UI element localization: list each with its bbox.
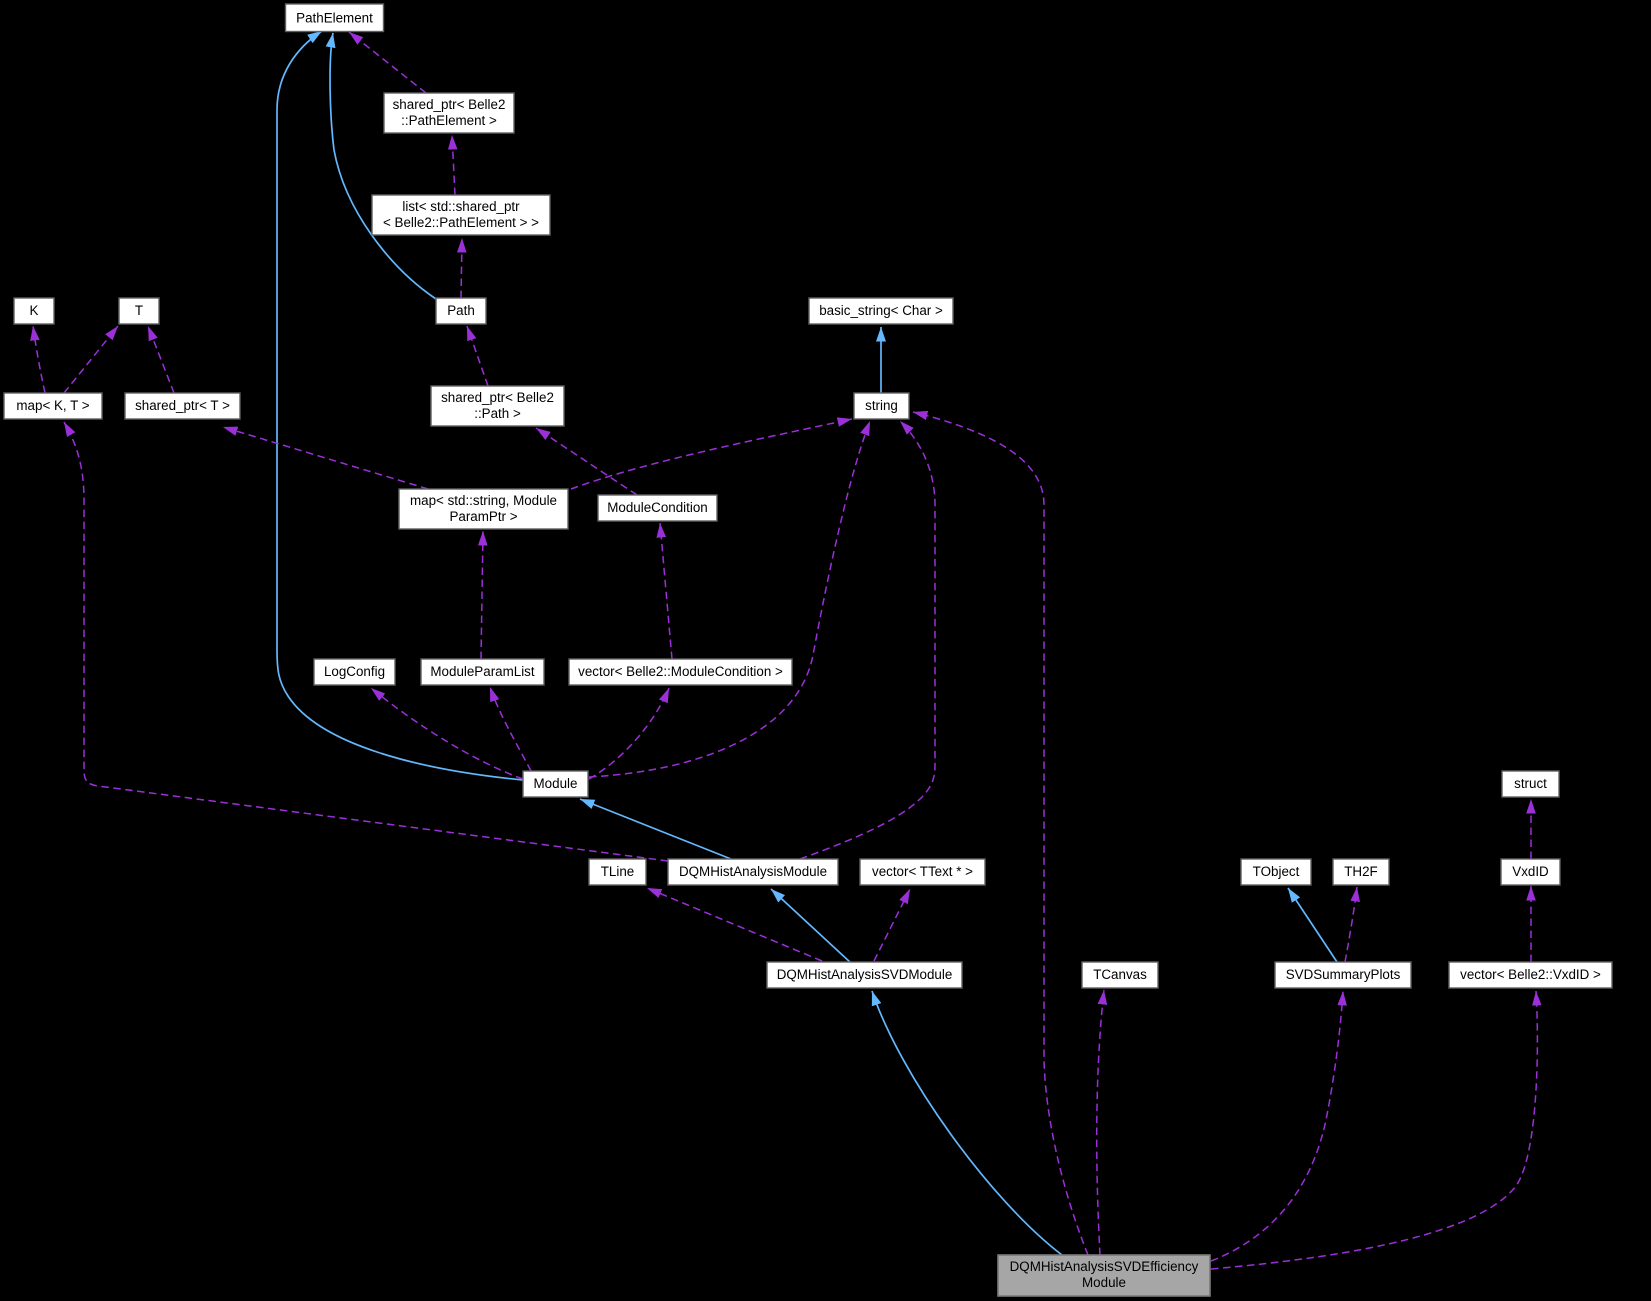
- svg-text:shared_ptr< Belle2: shared_ptr< Belle2: [441, 390, 554, 405]
- svg-text:VxdID: VxdID: [1512, 864, 1549, 879]
- edge Module->LogConfig (usage, dashed): [371, 688, 523, 779]
- svg-text:PathElement: PathElement: [296, 11, 373, 26]
- svg-text:< Belle2::PathElement > >: < Belle2::PathElement > >: [383, 215, 539, 230]
- svg-text:vector< Belle2::VxdID >: vector< Belle2::VxdID >: [1460, 967, 1601, 982]
- svg-text:shared_ptr< Belle2: shared_ptr< Belle2: [393, 97, 506, 112]
- edge DQMHistAnalysisSVDModule->vector_TText (usage, dashed): [874, 889, 910, 961]
- edge DQMHistAnalysisSVDModule->DQMHistAnalysisModule (inheritance, blue): [771, 889, 851, 963]
- node vector_Belle2_ModuleCondition: [569, 659, 792, 685]
- svg-text:DQMHistAnalysisModule: DQMHistAnalysisModule: [679, 864, 827, 879]
- svg-text:map< K, T >: map< K, T >: [16, 398, 89, 413]
- svg-text:T: T: [135, 303, 143, 318]
- svg-text:Path: Path: [447, 303, 475, 318]
- edge vector_VxdID->VxdID (usage, dashed): [1530, 886, 1532, 962]
- node TCanvas: [1082, 962, 1158, 988]
- svg-text:DQMHistAnalysisSVDModule: DQMHistAnalysisSVDModule: [777, 967, 953, 982]
- node TH2F: [1333, 859, 1389, 885]
- edge Module->ModuleParamList (usage, dashed): [490, 687, 531, 771]
- svg-text:K: K: [30, 303, 39, 318]
- edge DQMHistAnalysisModule->map_K_T (usage, dashed): [64, 422, 668, 861]
- edge DQMHistAnalysisSVDEfficiencyModule->TCanvas (usage, dashed): [1097, 990, 1104, 1255]
- svg-text:ModuleParamList: ModuleParamList: [430, 664, 534, 679]
- svg-text:::Path >: ::Path >: [474, 406, 521, 421]
- node shared_ptr_Belle2_Path: [431, 386, 564, 426]
- node ModuleCondition: [598, 495, 717, 521]
- node list_std_shared_ptr_Belle2_PathElement: [372, 195, 550, 235]
- svg-text:vector< Belle2::ModuleConditio: vector< Belle2::ModuleCondition >: [578, 664, 783, 679]
- svg-text:TH2F: TH2F: [1344, 864, 1377, 879]
- edge DQMHistAnalysisSVDModule->TLine (usage, dashed): [647, 888, 822, 961]
- edge Module->string (usage, dashed): [589, 421, 870, 777]
- svg-text:shared_ptr< T >: shared_ptr< T >: [135, 398, 230, 413]
- edge Path->PathElement (inheritance, blue): [330, 33, 436, 299]
- svg-text:list< std::shared_ptr: list< std::shared_ptr: [402, 199, 520, 214]
- node SVDSummaryPlots: [1275, 962, 1411, 988]
- edge shared_ptr_PathElement->PathElement (usage, dashed): [349, 32, 426, 93]
- node DQMHistAnalysisSVDEfficiencyModule (current class, gray): [998, 1255, 1210, 1296]
- node K: [14, 298, 54, 324]
- svg-text:::PathElement >: ::PathElement >: [401, 113, 497, 128]
- node Path: [436, 298, 486, 324]
- edge VxdID->struct (usage, dashed): [1530, 799, 1532, 859]
- node shared_ptr_Belle2_PathElement: [384, 93, 514, 133]
- svg-text:map< std::string, Module: map< std::string, Module: [410, 493, 557, 508]
- svg-text:DQMHistAnalysisSVDEfficiency: DQMHistAnalysisSVDEfficiency: [1010, 1259, 1199, 1274]
- svg-text:TLine: TLine: [601, 864, 635, 879]
- edge SVDSummaryPlots->TObject (inheritance, blue): [1288, 888, 1337, 962]
- node TObject: [1241, 859, 1311, 885]
- svg-text:ModuleCondition: ModuleCondition: [607, 500, 708, 515]
- svg-text:string: string: [865, 398, 898, 413]
- edge DQMHistAnalysisSVDEfficiencyModule->SVDSummaryPlots (usage, dashed): [1211, 991, 1343, 1261]
- svg-text:struct: struct: [1514, 776, 1547, 791]
- node basic_string_Char: [809, 298, 953, 324]
- edge map_string_ModuleParamPtr->string (usage, dashed): [571, 419, 852, 489]
- edge DQMHistAnalysisSVDEfficiencyModule->vector_VxdID (usage, dashed): [1211, 991, 1537, 1269]
- edge Module->vector_ModuleCondition (usage, dashed): [589, 688, 669, 779]
- node map_K_T: [4, 393, 102, 419]
- node Module: [523, 771, 588, 797]
- svg-text:ParamPtr >: ParamPtr >: [449, 509, 517, 524]
- svg-text:Module: Module: [534, 776, 578, 791]
- edge ModuleCondition->shared_ptr_Path (usage, dashed): [536, 428, 637, 495]
- edge map_K_T->K (usage, dashed): [33, 326, 45, 393]
- edge SVDSummaryPlots->TH2F (usage, dashed): [1345, 887, 1357, 962]
- svg-text:TCanvas: TCanvas: [1093, 967, 1147, 982]
- edge vector_ModuleCondition->ModuleCondition (usage, dashed): [660, 523, 672, 659]
- svg-text:Module: Module: [1082, 1275, 1126, 1290]
- edge map_string_ModuleParamPtr->shared_ptr_T (usage, dashed): [223, 427, 428, 489]
- node shared_ptr_T: [125, 393, 240, 419]
- node vector_Belle2_VxdID: [1449, 962, 1612, 988]
- node PathElement: [286, 4, 384, 32]
- edge string->basic_string (inheritance, blue): [880, 327, 882, 393]
- edge Module->PathElement (inheritance, blue): [277, 31, 523, 780]
- node struct: [1502, 771, 1559, 797]
- node ModuleParamList: [421, 659, 544, 685]
- svg-text:basic_string< Char >: basic_string< Char >: [819, 303, 943, 318]
- node string: [854, 393, 909, 419]
- node vector_TText: [860, 859, 985, 885]
- svg-text:vector< TText * >: vector< TText * >: [872, 864, 973, 879]
- node map_string_ModuleParamPtr: [399, 489, 568, 529]
- edge shared_ptr_Path->Path (usage, dashed): [467, 326, 488, 386]
- edge DQMHistAnalysisModule->Module (inheritance, blue): [580, 799, 731, 859]
- node DQMHistAnalysisSVDModule: [767, 962, 962, 988]
- node T: [119, 298, 159, 324]
- svg-text:LogConfig: LogConfig: [324, 664, 385, 679]
- node VxdID: [1501, 859, 1560, 885]
- node DQMHistAnalysisModule: [668, 859, 838, 885]
- svg-text:SVDSummaryPlots: SVDSummaryPlots: [1286, 967, 1401, 982]
- node TLine: [589, 859, 646, 885]
- edge shared_ptr_T->T (usage, dashed): [148, 326, 174, 393]
- node LogConfig: [314, 659, 395, 685]
- edge list->shared_ptr_PathElement (usage, dashed): [452, 135, 455, 195]
- edge DQMHistAnalysisSVDEfficiencyModule->string (usage, dashed): [913, 412, 1088, 1255]
- edge ModuleParamList->map_string_ModuleParamPtr (usage, dashed): [481, 531, 483, 659]
- svg-text:TObject: TObject: [1253, 864, 1300, 879]
- edge Path->list (usage, dashed): [461, 238, 462, 298]
- edge DQMHistAnalysisSVDEfficiencyModule->DQMHistAnalysisSVDModule (inheritance, blue): [872, 991, 1062, 1255]
- edge DQMHistAnalysisModule->string (usage, dashed): [800, 421, 935, 859]
- edge map_K_T->T (usage, dashed): [64, 326, 118, 393]
